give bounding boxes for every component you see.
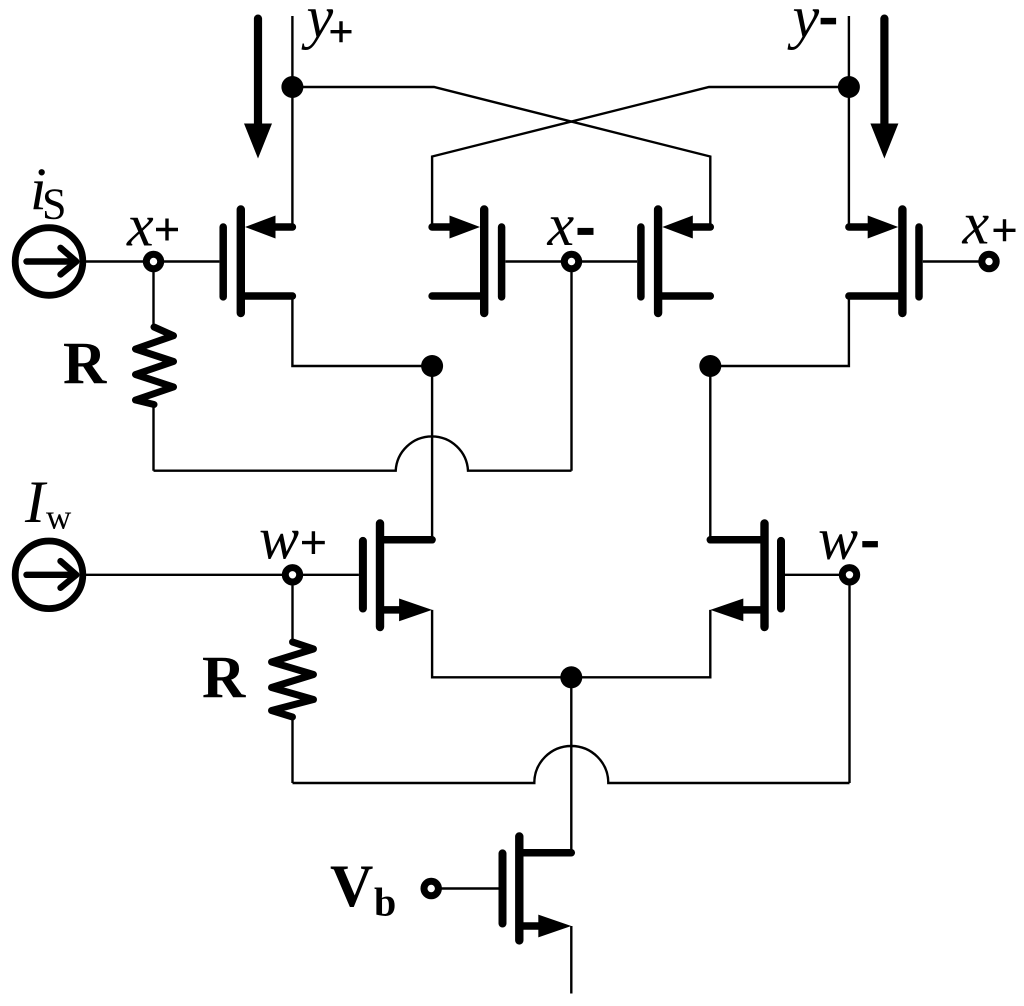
svg-text:R: R <box>63 331 107 397</box>
svg-text:V: V <box>330 853 373 919</box>
svg-text:x: x <box>962 190 990 256</box>
svg-text:R: R <box>202 644 246 710</box>
svg-text:S: S <box>42 180 66 229</box>
svg-text:x: x <box>547 192 575 258</box>
svg-text:b: b <box>374 880 396 925</box>
svg-text:x: x <box>126 193 154 259</box>
svg-text:w: w <box>46 497 72 536</box>
svg-text:w: w <box>818 506 858 572</box>
svg-text:I: I <box>24 469 48 535</box>
svg-text:w: w <box>259 505 299 571</box>
